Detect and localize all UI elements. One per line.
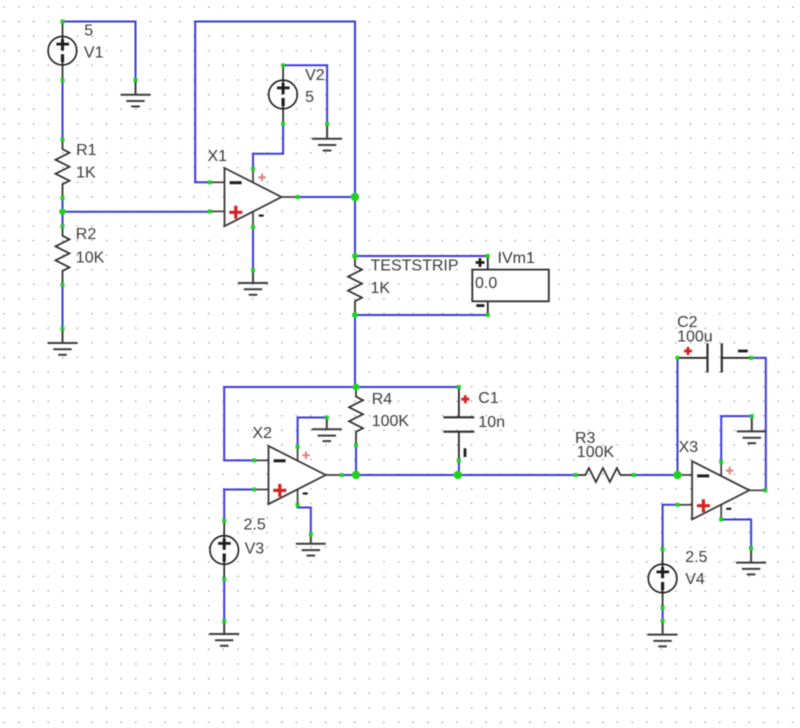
svg-text:X2: X2 [252, 425, 272, 442]
resistor R1 1K [56, 140, 97, 198]
node ground G10 pin [661, 619, 665, 623]
wire X1 V- pin to ground G4 [252, 227, 254, 270]
svg-text:V3: V3 [245, 541, 265, 558]
node TESTSTRIP bottom junction [352, 312, 358, 318]
svg-text:10n: 10n [478, 414, 505, 431]
node R1 bottom pin [61, 196, 65, 200]
svg-text:V2: V2 [305, 67, 325, 84]
wire R1 bottom to R2 top through node A [62, 198, 64, 226]
capacitor C2 100u [677, 314, 751, 373]
node ground G2 pin [61, 327, 65, 331]
wire node A to X1 plus input [63, 211, 210, 213]
node X3 V+ pin [719, 460, 723, 464]
node V4 bottom pin [661, 606, 665, 610]
wire TESTSTRIP bottom to voltmeter minus [355, 314, 488, 316]
wire X2 output through node D and node E to R3 left [342, 474, 576, 476]
svg-text:10K: 10K [76, 250, 105, 267]
ground G5 (X2 V+ pin) [312, 418, 342, 442]
node V1 bottom pin [61, 78, 65, 82]
node voltmeter minus pin [486, 313, 490, 317]
wire X2 V+ pin to ground G5 [298, 418, 327, 447]
ground G10 (V4) [648, 621, 678, 646]
ground G1 (V1 top rail) [121, 80, 151, 107]
wire C1 bottom to node E [458, 461, 460, 475]
wire V1 bottom to R1 top [62, 80, 64, 139]
node V3 bottom pin [222, 577, 226, 581]
ground G7 (V3) [209, 621, 239, 646]
wire X2 V- pin to ground G6 [298, 505, 311, 535]
ground G6 (X2 V- pin) [296, 534, 326, 555]
voltage source V4 [648, 549, 707, 608]
node X2 minus input pin [252, 458, 256, 462]
node X2 output pin [340, 473, 344, 477]
svg-text:2.5: 2.5 [244, 517, 266, 534]
wire X3 V+ pin to ground G8 [721, 416, 752, 462]
node X3 output pin [763, 488, 767, 492]
ground G3 (V2) [312, 124, 342, 151]
node V4 top pin [661, 548, 665, 552]
resistor TESTSTRIP 1K [348, 256, 459, 315]
svg-text:V4: V4 [685, 571, 705, 588]
wire V2 minus to X1 V+ pin [253, 124, 283, 169]
wire R4 bottom to node D [355, 445, 357, 475]
node ground G7 pin [222, 619, 226, 623]
svg-text:TESTSTRIP: TESTSTRIP [371, 258, 459, 275]
node V1 top pin [61, 20, 65, 24]
wire V2 plus to ground G3 [283, 65, 327, 124]
voltage source V3 [210, 517, 266, 579]
resistor R2 10K [56, 226, 105, 285]
svg-text:V1: V1 [84, 45, 104, 62]
ground G2 (below R2) [48, 329, 78, 355]
wire X1 feedback: minus input up and over to output node [195, 22, 355, 198]
node X2 V+ pin [296, 445, 300, 449]
node X1 V- pin [251, 225, 255, 229]
wire V1 top to ground G1 [63, 22, 136, 81]
node ground G5 pin [325, 416, 329, 420]
wire TESTSTRIP bottom down to node C [355, 315, 356, 387]
svg-text:X3: X3 [679, 439, 699, 456]
voltage source V2 [269, 65, 325, 124]
op-amp X1 [208, 148, 298, 227]
node R2 bottom pin [61, 283, 65, 287]
node ground G3 pin [325, 122, 329, 126]
svg-text:100u: 100u [677, 329, 713, 346]
node B output junction of X1 [351, 193, 359, 201]
node A junction R1/R2 divider [59, 208, 66, 215]
node V2 top pin [281, 63, 285, 67]
ground G4 (X1 V- pin) [238, 270, 268, 295]
wire node B down to TESTSTRIP top [354, 197, 356, 256]
node R3 right pin [632, 473, 636, 477]
node voltmeter plus pin [486, 254, 490, 258]
voltmeter IVm1 [472, 250, 549, 315]
wire X1 output to node B [298, 196, 356, 198]
node X1 plus input pin [208, 209, 212, 213]
node V3 top pin [222, 519, 226, 523]
node ground G1 pin [134, 78, 138, 82]
wire node F up to C2 left [677, 358, 679, 475]
ground G8 (X3 V+ pin) [737, 416, 767, 443]
op-amp X3 [678, 439, 766, 520]
resistor R4 100K [349, 387, 409, 445]
node X3 V- pin [719, 518, 723, 522]
svg-text:5: 5 [84, 22, 93, 39]
wire node C to X2 minus input and to C1 top [224, 387, 459, 460]
node X1 output pin [296, 195, 300, 199]
svg-text:IVm1: IVm1 [498, 250, 535, 267]
wire V4 minus to ground G10 [662, 608, 664, 621]
svg-text:R4: R4 [372, 391, 393, 408]
node R2 top pin [61, 224, 65, 228]
op-amp X2 [252, 425, 341, 505]
node D junction R4 at output row [352, 471, 360, 479]
wire R3 right to node F at X3 minus input [634, 474, 678, 476]
wire X3 V- pin to ground G9 [721, 520, 751, 549]
svg-text:C1: C1 [478, 390, 499, 407]
node C junction at R4 top [353, 384, 360, 391]
svg-text:R2: R2 [76, 226, 97, 243]
node X1 V+ pin [251, 167, 255, 171]
node ground G8 pin [750, 414, 754, 418]
node X2 V- pin [296, 503, 300, 507]
node R3 left pin [574, 473, 578, 477]
node C2 right pin [749, 356, 753, 360]
node V2 bottom pin [281, 122, 285, 126]
node C2 left pin [676, 356, 680, 360]
node ground G9 pin [749, 546, 753, 550]
wire V3 minus to ground G7 [223, 579, 225, 621]
resistor R3 100K [575, 430, 634, 482]
svg-text:1K: 1K [76, 164, 96, 181]
node E junction C1 at output row [454, 471, 462, 479]
wire TESTSTRIP top to voltmeter plus [355, 255, 488, 257]
node R1 top pin [61, 138, 65, 142]
node C1 bottom pin [457, 459, 461, 463]
node R4 bottom pin [354, 443, 358, 447]
wire R2 bottom to ground G2 [62, 285, 64, 329]
svg-text:R1: R1 [76, 142, 97, 159]
svg-text:0.0: 0.0 [475, 275, 497, 292]
svg-text:100K: 100K [372, 413, 410, 430]
svg-text:X1: X1 [208, 148, 228, 165]
node C1 top pin [457, 385, 461, 389]
node X2 plus input pin [252, 488, 256, 492]
svg-text:5: 5 [305, 89, 314, 106]
svg-text:100K: 100K [577, 444, 615, 461]
node X1 minus input pin [208, 180, 212, 184]
ground G9 (X3 V- pin) [736, 548, 766, 574]
capacitor C1 10n [443, 387, 505, 461]
wire X3 plus input to V4 plus [663, 505, 678, 550]
svg-text:2.5: 2.5 [685, 549, 707, 566]
wire X2 plus input to V3 plus [224, 490, 254, 521]
svg-text:1K: 1K [371, 280, 391, 297]
node X3 plus input pin [676, 503, 680, 507]
node ground G6 pin [309, 532, 313, 536]
node TESTSTRIP top junction [352, 253, 358, 259]
node ground G4 pin [251, 268, 255, 272]
voltage source V1 [48, 22, 103, 81]
wire C2 right to X3 output [751, 358, 766, 490]
node F junction X3 minus input [673, 471, 681, 479]
